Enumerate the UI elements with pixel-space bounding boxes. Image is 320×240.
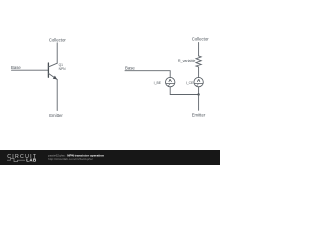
svg-text:Base: Base bbox=[11, 65, 21, 70]
resistor R_variable bbox=[196, 56, 201, 67]
svg-text:NPN: NPN bbox=[59, 67, 67, 71]
footer bar bbox=[0, 150, 220, 165]
ammeter I_BE bbox=[166, 77, 175, 86]
svg-text:R_variable: R_variable bbox=[178, 59, 196, 63]
svg-text:Collector: Collector bbox=[49, 37, 67, 42]
wire base horizontal (right) bbox=[125, 71, 170, 78]
svg-text:Base: Base bbox=[125, 66, 135, 71]
svg-text:I_CE: I_CE bbox=[186, 81, 194, 85]
wire resistor to ammeter I_CE bbox=[198, 67, 200, 77]
footer caption line 1 bbox=[48, 153, 104, 161]
wire emitter vertical (left) bbox=[56, 80, 58, 111]
svg-text:Collector: Collector bbox=[192, 37, 210, 42]
svg-text:Emitter: Emitter bbox=[192, 113, 206, 118]
wire base horizontal (left) bbox=[12, 69, 49, 71]
wire I_CE bottom to junction bbox=[198, 87, 200, 95]
wire I_BE bottom to junction bbox=[170, 87, 198, 95]
svg-text:Emitter: Emitter bbox=[49, 113, 63, 118]
transistor Q1 bbox=[48, 63, 57, 80]
wire emitter vertical (right) bbox=[198, 95, 200, 111]
svg-text:I_BE: I_BE bbox=[154, 81, 162, 85]
wire collector to resistor (right) bbox=[198, 43, 200, 56]
ammeter I_CE bbox=[194, 77, 203, 86]
CircuitLab logo bbox=[7, 154, 37, 163]
wire collector vertical (left) bbox=[56, 43, 58, 63]
junction dot bbox=[197, 93, 199, 95]
